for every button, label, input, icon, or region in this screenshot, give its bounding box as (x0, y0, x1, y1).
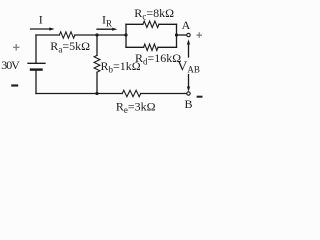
battery minus sign (11, 84, 18, 86)
VAB arrow upper segment (188, 43, 190, 58)
current I arrow line (31, 28, 52, 30)
wire left vertical bottom (battery - lead) (35, 70, 37, 94)
svg-text:VAB: VAB (177, 59, 200, 74)
wire left vertical top (battery + lead) (35, 35, 37, 63)
top branch left wire (126, 23, 143, 25)
resistor Re zigzag (122, 90, 140, 96)
current I arrowhead (49, 27, 54, 30)
terminal A plus sign (197, 32, 203, 38)
svg-text:B: B (184, 97, 192, 111)
VAB arrowhead up (at A) (187, 39, 190, 44)
battery 30V long plate (28, 62, 45, 64)
junction dot box left node (124, 33, 127, 36)
bottom wire left segment (36, 93, 122, 95)
svg-text:I: I (39, 13, 43, 27)
svg-text:A: A (182, 18, 191, 32)
battery 30V short plate (31, 68, 42, 70)
terminal B minus sign (197, 96, 203, 98)
wire Rb top lead (96, 35, 98, 55)
resistor Rb zigzag (94, 55, 100, 72)
terminal B open circle (187, 92, 190, 95)
svg-text:Rc=8kΩ: Rc=8kΩ (134, 6, 174, 22)
wire Rb bottom lead (96, 72, 98, 93)
svg-text:IR: IR (102, 13, 112, 29)
svg-text:Rd=16kΩ: Rd=16kΩ (135, 51, 181, 67)
wire top left segment (36, 34, 59, 36)
resistor Rc zigzag (143, 21, 159, 27)
junction dot Rb top (95, 33, 98, 36)
VAB arrow lower segment (188, 75, 190, 89)
VAB arrowhead down (at B) (187, 87, 190, 92)
wire to terminal A (177, 34, 187, 36)
terminal A open circle (187, 33, 190, 36)
bottom branch right wire (158, 46, 177, 48)
current IR arrowhead (112, 28, 117, 31)
top branch right wire (159, 23, 177, 25)
resistor Ra zigzag (59, 32, 75, 38)
current IR arrow line (97, 28, 115, 30)
resistor Rd zigzag (144, 44, 158, 50)
bottom branch left wire (126, 46, 144, 48)
svg-text:Re=3kΩ: Re=3kΩ (116, 100, 156, 116)
wire top middle segment (75, 34, 126, 36)
junction dot box right node (175, 33, 178, 36)
parallel box right edge (176, 24, 178, 47)
junction dot Rb bottom (95, 92, 98, 95)
svg-text:30V: 30V (1, 58, 20, 72)
svg-text:Ra=5kΩ: Ra=5kΩ (50, 39, 90, 55)
battery plus sign (13, 44, 20, 51)
bottom wire right segment to terminal B (141, 93, 187, 95)
parallel box left edge (125, 24, 127, 47)
